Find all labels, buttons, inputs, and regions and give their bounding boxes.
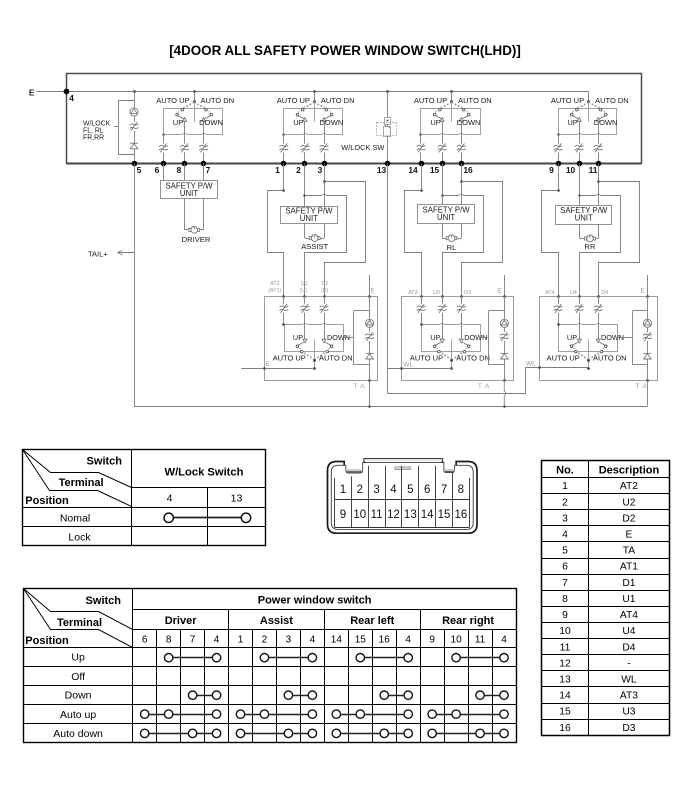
svg-text:UP: UP	[567, 333, 577, 342]
svg-text:E: E	[641, 287, 645, 294]
svg-text:4: 4	[562, 529, 568, 540]
svg-text:AUTO UP: AUTO UP	[273, 353, 306, 362]
svg-text:2: 2	[357, 484, 363, 496]
svg-text:UNIT: UNIT	[575, 214, 593, 223]
connector pin numbers	[340, 484, 468, 521]
svg-text:(U): (U)	[300, 288, 308, 294]
svg-text:Assist: Assist	[260, 615, 293, 627]
svg-text:E: E	[497, 287, 501, 294]
svg-text:7: 7	[206, 165, 211, 175]
svg-text:E: E	[29, 88, 35, 98]
svg-text:10: 10	[353, 509, 366, 521]
main switch assembly box	[67, 74, 642, 164]
svg-text:DOWN: DOWN	[457, 118, 481, 127]
lower switch contacts (rear-right)	[547, 333, 627, 370]
TA bus rise to rear-right block	[647, 380, 649, 406]
svg-text:(D): (D)	[321, 288, 329, 294]
terminal 1	[275, 161, 286, 175]
svg-text:D3: D3	[464, 290, 471, 296]
svg-text:16: 16	[559, 723, 571, 734]
rear-left window rocker switch	[414, 90, 492, 164]
svg-text:Power window switch: Power window switch	[258, 595, 372, 607]
svg-text:W/LOCK SW: W/LOCK SW	[341, 143, 384, 152]
svg-text:11: 11	[589, 165, 598, 175]
svg-text:Terminal: Terminal	[59, 477, 104, 489]
svg-text:U4: U4	[622, 626, 635, 637]
svg-text:11: 11	[371, 509, 383, 521]
lower switch contacts (assist)	[273, 333, 353, 370]
svg-text:7: 7	[441, 484, 447, 496]
svg-text:2: 2	[562, 497, 568, 508]
svg-text:UP: UP	[430, 333, 440, 342]
driver window rocker switch	[156, 90, 234, 164]
svg-text:Off: Off	[71, 671, 85, 683]
svg-text:AT3: AT3	[620, 691, 638, 702]
box bottom edge (terminal rail)	[67, 163, 642, 165]
svg-text:D1: D1	[622, 578, 635, 589]
svg-text:Description: Description	[599, 465, 660, 477]
pin description table	[542, 461, 670, 736]
svg-text:DOWN: DOWN	[199, 118, 223, 127]
window motor M-RR	[585, 235, 596, 251]
svg-text:AUTO UP: AUTO UP	[277, 96, 310, 105]
wire E to node 4	[37, 91, 67, 93]
svg-text:14: 14	[408, 165, 418, 175]
svg-text:8: 8	[458, 484, 464, 496]
bracket around W/LOCK lamp	[119, 101, 135, 155]
assist E wire stub to pole	[241, 361, 314, 370]
routing wires to rear-right lower block	[542, 180, 648, 296]
svg-text:[4DOOR ALL SAFETY POWER WINDOW: [4DOOR ALL SAFETY POWER WINDOW SWITCH(LH…	[169, 43, 521, 58]
svg-text:DOWN: DOWN	[320, 118, 344, 127]
svg-text:8: 8	[166, 634, 172, 645]
svg-text:11: 11	[475, 634, 486, 645]
svg-text:AT4: AT4	[545, 290, 554, 296]
safety P/W unit U-rear-left	[418, 205, 475, 224]
svg-text:13: 13	[231, 493, 243, 505]
svg-text:3: 3	[562, 513, 568, 524]
svg-text:No.: No.	[556, 465, 574, 477]
lower rocker contact box (rear-left)	[420, 322, 480, 352]
lower rocker contact box (rear-right)	[557, 322, 617, 352]
svg-text:AUTO DN: AUTO DN	[593, 354, 627, 363]
svg-text:5: 5	[562, 546, 568, 557]
svg-text:13: 13	[404, 509, 417, 521]
svg-text:AUTO UP: AUTO UP	[156, 96, 189, 105]
svg-text:2: 2	[262, 634, 268, 645]
svg-text:FL, RL: FL, RL	[83, 127, 104, 134]
lamp (W/LOCK illumination)	[130, 108, 138, 116]
E bus wire inside box	[67, 91, 589, 93]
svg-text:6: 6	[155, 165, 160, 175]
svg-text:Nomal: Nomal	[60, 513, 90, 525]
lamp branch (assist)	[344, 296, 375, 382]
wires unit to motor ASSIST	[305, 224, 325, 239]
svg-text:AUTO UP: AUTO UP	[414, 96, 447, 105]
svg-text:15: 15	[430, 165, 440, 175]
svg-text:8: 8	[562, 594, 568, 605]
svg-text:UP: UP	[293, 333, 303, 342]
terminal 15	[430, 161, 445, 175]
safety P/W unit U-rear-right	[556, 206, 612, 225]
svg-text:U3: U3	[433, 290, 440, 296]
svg-text:9: 9	[549, 165, 554, 175]
entry junction dots (rear-right)	[557, 295, 649, 298]
svg-text:12: 12	[559, 658, 571, 669]
svg-text:3: 3	[318, 165, 323, 175]
svg-text:AT3: AT3	[408, 290, 417, 296]
svg-text:E: E	[265, 361, 269, 368]
svg-text:U2: U2	[622, 497, 635, 508]
svg-text:W/LOCK: W/LOCK	[83, 120, 111, 127]
wires terminals into assist safety unit	[284, 164, 325, 206]
lower block box (assist)	[265, 297, 378, 381]
svg-text:15: 15	[559, 707, 571, 718]
lamp branch (rear-left)	[481, 296, 509, 382]
svg-text:UP: UP	[430, 118, 440, 127]
svg-text:FR,RR: FR,RR	[83, 134, 104, 141]
svg-text:WL: WL	[621, 675, 637, 686]
svg-text:T A: T A	[635, 383, 647, 390]
svg-text:AT2: AT2	[270, 281, 279, 287]
svg-text:15: 15	[355, 634, 367, 645]
W/Lock normal-position contact link	[164, 513, 251, 522]
svg-text:AT1: AT1	[620, 562, 638, 573]
TAIL+ label and arrow	[88, 249, 134, 258]
svg-text:7: 7	[562, 578, 568, 589]
svg-text:Lock: Lock	[68, 531, 91, 543]
Auto up row links	[140, 710, 220, 718]
WL net: terminal 13 down and across	[387, 164, 588, 394]
svg-text:Switch: Switch	[86, 595, 122, 607]
assist TA drop	[369, 380, 371, 406]
routing wires to rear-left lower block	[405, 180, 505, 296]
svg-text:TA: TA	[623, 546, 636, 557]
svg-text:3: 3	[286, 634, 292, 645]
svg-text:Down: Down	[65, 690, 92, 702]
svg-text:1: 1	[562, 481, 568, 492]
svg-text:U1: U1	[622, 594, 635, 605]
svg-text:WL: WL	[403, 361, 413, 368]
svg-text:T A: T A	[353, 383, 365, 390]
svg-text:9: 9	[562, 610, 568, 621]
svg-text:W/Lock Switch: W/Lock Switch	[165, 467, 244, 479]
connector cavity grid	[335, 466, 470, 528]
wire terminal 5 down to TA bus	[134, 164, 136, 406]
window motor M-ASSIST	[301, 235, 328, 251]
svg-text:Terminal: Terminal	[57, 617, 102, 629]
svg-text:6: 6	[562, 562, 568, 573]
lower switch contacts (rear-left)	[410, 333, 490, 370]
svg-text:WL: WL	[526, 361, 536, 368]
svg-text:Driver: Driver	[165, 615, 198, 627]
svg-text:4: 4	[214, 634, 220, 645]
wires unit to motor RL	[442, 224, 461, 239]
wires terminals into rear-left safety unit	[422, 164, 462, 205]
svg-text:14: 14	[421, 509, 434, 521]
svg-text:DOWN: DOWN	[594, 118, 618, 127]
svg-text:4: 4	[390, 484, 397, 496]
resistor squiggle (W/LOCK branch)	[129, 122, 138, 130]
terminal 13	[377, 161, 390, 175]
lamp branch (rear-right)	[618, 296, 653, 382]
svg-text:UP: UP	[173, 118, 183, 127]
TA bus along bottom	[134, 406, 647, 408]
svg-text:10: 10	[566, 165, 576, 175]
svg-text:13: 13	[377, 165, 387, 175]
svg-text:UP: UP	[567, 118, 577, 127]
svg-text:4: 4	[69, 93, 74, 103]
svg-text:Up: Up	[71, 652, 85, 664]
svg-text:7: 7	[190, 634, 196, 645]
svg-text:AUTO UP: AUTO UP	[547, 353, 580, 362]
wires unit to motor RR	[579, 224, 598, 238]
svg-text:1: 1	[238, 634, 244, 645]
wires terminals into driver safety unit	[164, 164, 204, 181]
svg-text:AT2: AT2	[620, 481, 638, 492]
svg-text:1: 1	[275, 165, 280, 175]
svg-text:Switch: Switch	[87, 455, 123, 467]
svg-text:6: 6	[424, 484, 430, 496]
terminal 10	[566, 161, 582, 175]
svg-text:4: 4	[501, 634, 507, 645]
svg-text:11: 11	[560, 642, 571, 653]
safety P/W unit U-driver	[161, 181, 218, 199]
net label stubs above assist block	[268, 281, 374, 294]
svg-text:AUTO DN: AUTO DN	[201, 96, 235, 105]
wires terminals into rear-right safety unit	[559, 164, 599, 206]
svg-text:ASSIST: ASSIST	[301, 242, 328, 251]
terminal 5	[132, 161, 142, 175]
svg-text:D2: D2	[322, 281, 329, 287]
svg-text:Position: Position	[25, 495, 69, 507]
W/LOCK SW wire	[387, 92, 389, 164]
net label stubs above rear-right block	[545, 287, 644, 296]
Up row links	[164, 654, 220, 662]
svg-text:E: E	[371, 287, 375, 294]
svg-text:DRIVER: DRIVER	[182, 235, 211, 244]
svg-text:14: 14	[559, 691, 571, 702]
terminal 8	[177, 161, 188, 175]
window motor M-RL	[446, 235, 457, 252]
svg-text:UNIT: UNIT	[300, 214, 318, 223]
svg-text:AT4: AT4	[620, 610, 638, 621]
svg-text:9: 9	[429, 634, 435, 645]
svg-text:AUTO DN: AUTO DN	[595, 96, 629, 105]
svg-text:U2: U2	[301, 281, 308, 287]
16-pin connector face view	[328, 459, 478, 533]
rear-right window rocker switch	[551, 92, 629, 164]
terminal 2	[296, 161, 307, 175]
svg-text:(AT1): (AT1)	[268, 288, 281, 294]
svg-text:AUTO UP: AUTO UP	[551, 96, 584, 105]
W/LOCK illumination lamp branch wire	[134, 92, 136, 164]
svg-text:D4: D4	[622, 642, 635, 653]
svg-text:15: 15	[438, 509, 451, 521]
svg-text:D2: D2	[622, 513, 635, 524]
svg-text:4: 4	[405, 634, 411, 645]
lower block box (rear-right)	[540, 297, 658, 381]
W/LOCK SW switch symbol	[377, 118, 397, 137]
node 4 junction	[64, 89, 70, 95]
power window switch table	[24, 589, 517, 743]
svg-text:1: 1	[340, 484, 346, 496]
svg-text:2: 2	[296, 165, 301, 175]
svg-text:AUTO DN: AUTO DN	[458, 96, 492, 105]
diode (W/LOCK branch)	[130, 143, 138, 149]
svg-text:AUTO DN: AUTO DN	[456, 354, 490, 363]
Down row links	[188, 691, 220, 699]
svg-text:12: 12	[387, 509, 400, 521]
lower block box (rear-left)	[402, 297, 514, 381]
svg-text:RL: RL	[447, 243, 457, 252]
terminal 3	[318, 161, 328, 175]
rear-left TA drop (hops WL run)	[504, 380, 505, 406]
wires unit to motor DRIVER	[185, 198, 204, 230]
window motor M-DRIVER	[182, 226, 211, 244]
svg-text:Position: Position	[25, 635, 69, 647]
svg-text:U4: U4	[570, 290, 577, 296]
svg-text:4: 4	[310, 634, 316, 645]
svg-text:9: 9	[340, 509, 346, 521]
routing wires to assist lower block	[268, 180, 370, 296]
svg-text:Auto up: Auto up	[60, 709, 96, 721]
lower rocker contact box (assist)	[282, 322, 343, 352]
svg-text:RR: RR	[585, 242, 596, 251]
svg-text:10: 10	[559, 626, 571, 637]
svg-text:5: 5	[407, 484, 413, 496]
net label stubs above rear-left block	[408, 287, 501, 296]
svg-text:6: 6	[142, 634, 148, 645]
in-block wires with squiggles (assist)	[279, 296, 328, 339]
svg-text:U3: U3	[622, 707, 635, 718]
in-block wires with squiggles (rear-left)	[417, 296, 466, 339]
svg-text:3: 3	[373, 484, 379, 496]
svg-text:16: 16	[454, 509, 467, 521]
in-block wires with squiggles (rear-right)	[554, 296, 603, 339]
svg-text:AUTO DN: AUTO DN	[321, 96, 355, 105]
svg-text:10: 10	[451, 634, 463, 645]
svg-text:-: -	[627, 658, 630, 669]
svg-text:16: 16	[463, 165, 473, 175]
svg-text:AUTO DN: AUTO DN	[319, 354, 353, 363]
svg-text:8: 8	[177, 165, 182, 175]
svg-text:UNIT: UNIT	[180, 189, 198, 198]
assist window rocker switch	[277, 90, 355, 164]
terminal 14	[408, 161, 424, 175]
svg-text:E: E	[626, 529, 633, 540]
svg-text:D3: D3	[622, 723, 635, 734]
svg-text:T A: T A	[478, 383, 490, 390]
svg-text:Rear left: Rear left	[350, 615, 394, 627]
svg-text:AUTO UP: AUTO UP	[410, 353, 443, 362]
svg-text:Rear right: Rear right	[442, 615, 494, 627]
terminal 16	[459, 161, 473, 175]
W/Lock switch table	[23, 450, 266, 546]
terminal 6	[155, 161, 167, 175]
svg-text:TAIL+: TAIL+	[88, 249, 108, 258]
entry junction dots (rear-left)	[420, 295, 506, 298]
safety P/W unit U-assist	[281, 207, 338, 224]
svg-text:14: 14	[331, 634, 343, 645]
terminal 9	[549, 161, 561, 175]
svg-text:D4: D4	[601, 290, 608, 296]
terminal 7	[201, 161, 211, 175]
svg-text:4: 4	[167, 493, 173, 505]
svg-text:Auto down: Auto down	[53, 728, 103, 740]
entry junction dots (assist)	[282, 295, 371, 298]
Auto down row links	[140, 729, 220, 737]
svg-text:16: 16	[379, 634, 391, 645]
terminal 11	[589, 161, 602, 175]
svg-text:5: 5	[137, 165, 142, 175]
svg-text:13: 13	[559, 675, 571, 686]
svg-text:UP: UP	[293, 118, 303, 127]
svg-text:UNIT: UNIT	[437, 213, 455, 222]
